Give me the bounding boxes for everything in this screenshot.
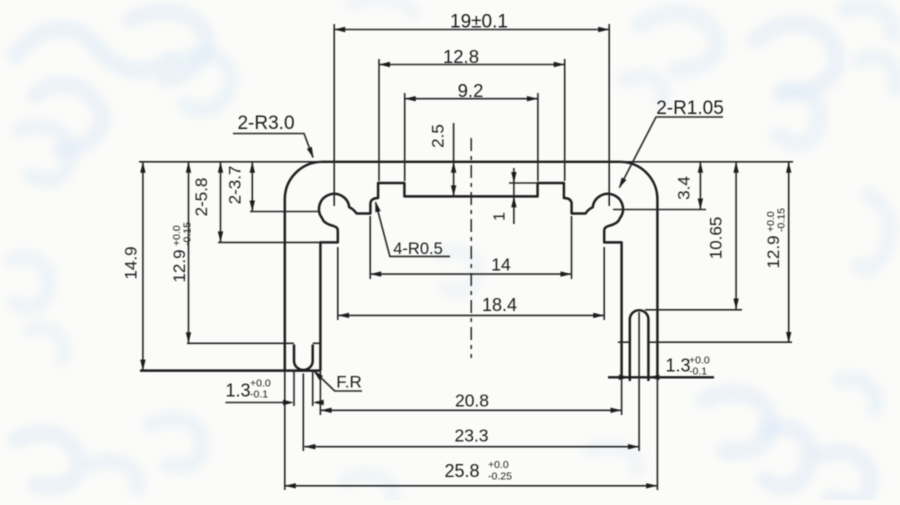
- svg-text:14.9: 14.9: [122, 246, 141, 279]
- svg-text:19±0.1: 19±0.1: [450, 12, 508, 33]
- svg-text:-0.15: -0.15: [182, 222, 194, 246]
- svg-text:2-R3.0: 2-R3.0: [237, 113, 294, 134]
- svg-text:2-3.7: 2-3.7: [226, 166, 245, 205]
- svg-text:9.2: 9.2: [458, 80, 484, 101]
- svg-text:20.8: 20.8: [455, 391, 489, 411]
- svg-text:+0.0: +0.0: [488, 459, 509, 471]
- svg-text:2-5.8: 2-5.8: [192, 178, 211, 217]
- svg-text:-0.1: -0.1: [689, 366, 707, 378]
- svg-text:2.5: 2.5: [429, 124, 448, 148]
- svg-text:14: 14: [491, 255, 511, 275]
- svg-text:4-R0.5: 4-R0.5: [393, 240, 443, 258]
- svg-text:18.4: 18.4: [482, 295, 517, 315]
- svg-text:-0.1: -0.1: [250, 389, 268, 401]
- svg-text:1.3: 1.3: [225, 381, 250, 401]
- svg-text:23.3: 23.3: [454, 426, 488, 446]
- svg-text:F.R: F.R: [336, 373, 362, 392]
- svg-text:1: 1: [492, 212, 509, 221]
- svg-text:-0.15: -0.15: [776, 208, 788, 232]
- svg-text:10.65: 10.65: [706, 217, 725, 260]
- svg-text:1.3: 1.3: [665, 356, 690, 376]
- svg-text:12.9: 12.9: [170, 249, 189, 282]
- svg-text:2-R1.05: 2-R1.05: [656, 98, 724, 119]
- svg-text:-0.25: -0.25: [488, 471, 512, 483]
- svg-text:12.9: 12.9: [764, 235, 783, 268]
- svg-text:25.8: 25.8: [444, 461, 479, 481]
- svg-text:12.8: 12.8: [443, 46, 479, 67]
- svg-text:3.4: 3.4: [675, 176, 694, 200]
